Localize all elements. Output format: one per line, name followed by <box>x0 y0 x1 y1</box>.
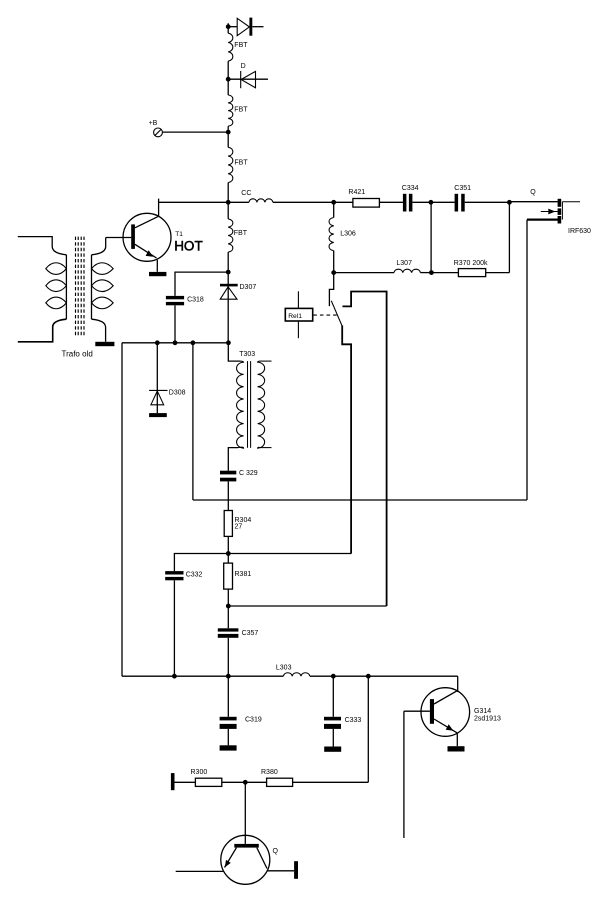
wire coil3 to CC junction <box>227 183 229 219</box>
svg-text:T303: T303 <box>239 351 255 358</box>
relay Rel1 switch blade <box>331 301 342 326</box>
node junction +B <box>226 130 231 135</box>
wire junction to R380 <box>245 781 266 783</box>
node junction x193 riser on bus <box>191 340 196 345</box>
node junction MOSFET drain wire <box>507 200 512 205</box>
wire C329 to R304 <box>227 481 229 510</box>
wire R370 to right corner <box>486 272 510 274</box>
wire coil1 to D junction <box>227 61 229 95</box>
svg-text:C319: C319 <box>245 716 262 723</box>
transformer T303 : primary winding <box>237 361 244 448</box>
wire junction to CC coil <box>228 201 249 203</box>
transistor T1 collector riser <box>158 199 160 217</box>
wire C332 to bottom bus <box>173 580 175 676</box>
resistor R380 <box>267 778 293 786</box>
wire main bus (y343) <box>122 342 228 344</box>
wire L306 junction down <box>333 202 335 217</box>
wire riser x193 from bus to y500 <box>192 343 194 500</box>
transformer T303 : core lines <box>248 361 251 448</box>
relay actuation dashed link <box>313 314 337 316</box>
svg-text:L303: L303 <box>276 664 292 671</box>
node junction C334/C351 <box>429 200 434 205</box>
wire source line across (y500) <box>193 499 527 501</box>
wire coil2 to +B junction <box>227 126 229 147</box>
transformer Trafo old : left petal 2 <box>46 280 67 292</box>
transformer T303 : secondary winding <box>258 361 265 448</box>
capacitor C351 <box>455 194 465 212</box>
wire L306 to lower junction <box>333 251 335 273</box>
transformer Trafo old : left winding top lead <box>18 237 67 255</box>
transistor Q (bottom) <box>221 835 270 884</box>
capacitor C319 <box>220 676 237 745</box>
svg-text:C 329: C 329 <box>239 470 258 477</box>
svg-text:HOT: HOT <box>174 238 203 253</box>
wire R380 to riser <box>293 781 369 783</box>
svg-text:FBT: FBT <box>234 230 248 237</box>
ground (Trafo old right winding) <box>95 342 114 346</box>
svg-text:R380: R380 <box>261 769 278 776</box>
terminal bar (R300 left) <box>171 773 175 790</box>
wire L307 to junction <box>420 272 431 274</box>
svg-text:Rel1: Rel1 <box>288 313 302 320</box>
transistor Q IRF630 (MOSFET) <box>527 199 580 224</box>
inductor L306 <box>329 218 334 251</box>
svg-text:R300: R300 <box>191 769 208 776</box>
relay Rel1 NO contact <box>343 292 387 607</box>
inductor FBT (coil 4) <box>228 219 233 252</box>
diode D308 <box>149 343 167 413</box>
svg-text:Q: Q <box>273 848 279 855</box>
terminal +B <box>149 120 163 137</box>
resistor R304 <box>224 511 232 537</box>
wire CC coil to L306 junction <box>273 201 334 203</box>
transistor G314 2sd1913 <box>421 688 470 747</box>
svg-text:FBT: FBT <box>234 106 248 113</box>
resistor R300 <box>195 778 221 786</box>
wire C351 to junction <box>465 201 510 203</box>
capacitor C318 <box>166 296 184 305</box>
node junction T303/D307 on bus <box>226 340 231 345</box>
node junction D307 / C318 wire <box>226 270 231 275</box>
node junction diode D <box>226 77 231 82</box>
wire C357 to bottom bus <box>227 638 229 676</box>
svg-text:FBT: FBT <box>234 159 248 166</box>
node junction top diode / FBT coil <box>226 24 231 29</box>
wire MOSFET source down <box>526 220 528 500</box>
svg-text:CC: CC <box>241 190 251 197</box>
ground (C333) <box>324 747 341 752</box>
wire junction to R370 <box>431 272 458 274</box>
capacitor C332 <box>165 571 183 580</box>
transformer Trafo old : left winding bottom lead <box>18 319 67 342</box>
svg-text:L307: L307 <box>396 260 412 267</box>
wire G314 base <box>404 710 430 712</box>
inductor L303 <box>283 673 309 676</box>
inductor CC <box>249 199 273 202</box>
svg-text:L306: L306 <box>340 231 356 238</box>
node junction C332 on bottom bus <box>172 674 177 679</box>
ground (G314 emitter) <box>448 746 465 751</box>
inductor FBT (coil 1) <box>228 33 233 61</box>
capacitor C333 <box>324 676 341 746</box>
svg-text:R370 200k: R370 200k <box>454 260 488 267</box>
wire C318 corner to D307 junction <box>175 272 228 296</box>
transformer Trafo old : right petal 2 <box>92 280 114 292</box>
wire terminal to R300 <box>175 781 196 783</box>
svg-text:C334: C334 <box>402 185 419 192</box>
svg-text:C318: C318 <box>187 296 204 303</box>
terminal bar (Q collector) <box>294 861 298 879</box>
relay Rel1 blade bottom path <box>342 325 351 553</box>
svg-text:Trafo old: Trafo old <box>62 350 93 359</box>
wire y553 (C332 to relay NC riser) <box>174 554 351 572</box>
wire relay coil stub above <box>297 291 299 308</box>
inductor L307 <box>394 269 420 272</box>
svg-text:Q: Q <box>530 189 536 196</box>
transformer T303 : secondary bottom stub <box>260 447 272 449</box>
node junction L306 top <box>331 200 336 205</box>
transformer Trafo old : core dashed lines <box>76 237 85 338</box>
node junction R381 bottom <box>226 604 231 609</box>
svg-text:C351: C351 <box>454 185 471 192</box>
wire bottom bus left of L303 <box>122 675 283 677</box>
resistor R421 <box>353 199 380 208</box>
svg-text:D307: D307 <box>240 284 257 291</box>
svg-text:R421: R421 <box>348 189 365 196</box>
svg-text:D308: D308 <box>169 390 186 397</box>
ground (T1 emitter) <box>149 272 166 276</box>
capacitor C357 <box>218 628 239 638</box>
wire R304 to R381 <box>227 536 229 563</box>
wire FBT coil 4 top <box>227 252 229 272</box>
transformer Trafo old : right petal 3 <box>92 297 114 309</box>
svg-text:C332: C332 <box>186 571 203 578</box>
wire R381 to C357 <box>227 589 229 628</box>
wire bottom bus right of L303 <box>310 675 458 677</box>
node junction L307/R370 <box>429 270 434 275</box>
transformer Trafo old : right winding bottom lead <box>92 319 106 342</box>
wire G314 base riser down <box>403 711 405 838</box>
node junction D308 on bus <box>155 340 160 345</box>
wire +B to main axis <box>163 131 229 133</box>
wire riser C334/C351 junction to L307/R370 junction <box>430 202 432 272</box>
node junction C357/C319 on bottom bus <box>226 674 231 679</box>
transformer Trafo old : left petal 3 <box>46 297 67 309</box>
transformer Trafo old : left petal 1 <box>46 263 67 275</box>
wire Q base riser <box>244 782 246 844</box>
node junction L306 bottom <box>331 270 336 275</box>
node junction C333 on bottom bus <box>331 674 336 679</box>
svg-text:+B: +B <box>149 120 158 127</box>
transformer Trafo old : right petal 1 <box>92 263 114 275</box>
transformer T303 : primary bottom lead <box>228 448 238 471</box>
inductor FBT (coil 2) <box>228 95 233 126</box>
svg-text:D: D <box>241 63 246 70</box>
resistor R381 <box>224 563 233 589</box>
node junction C318 on bus <box>173 340 178 345</box>
ground (D308) <box>149 413 167 417</box>
transistor T1 (HOT) <box>123 213 171 271</box>
wire C334 to junction <box>412 201 431 203</box>
wire T1 base <box>106 237 132 239</box>
ground (C319) <box>220 745 237 750</box>
svg-text:2sd1913: 2sd1913 <box>474 716 501 723</box>
svg-text:IRF630: IRF630 <box>568 228 591 235</box>
svg-text:FBT: FBT <box>234 42 248 49</box>
wire relay pole from L306 junction <box>329 273 333 307</box>
svg-text:R381: R381 <box>235 571 252 578</box>
resistor R370 200k <box>458 269 485 277</box>
diode D307 <box>220 272 238 343</box>
transformer Trafo old : right winding top lead <box>92 238 106 255</box>
svg-text:G314: G314 <box>474 708 491 715</box>
node junction R300/R380/Q base <box>243 780 248 785</box>
wire left riser (x122) <box>121 343 123 676</box>
node junction CC row <box>226 200 231 205</box>
wire relay coil stub below <box>297 321 299 338</box>
wire main axis to FBT coil 1 <box>227 27 229 34</box>
wire junction to C351 <box>431 201 455 203</box>
wire y606 (R381 bottom to relay NO riser) <box>228 605 386 607</box>
wire riser bottom bus to R380 right <box>367 676 369 782</box>
capacitor C329 <box>220 471 236 482</box>
wire junction to MOSFET drain <box>509 201 557 203</box>
diode FBT rectifier (top) <box>228 18 263 36</box>
svg-text:27: 27 <box>235 523 243 530</box>
diode D (points left) <box>228 71 268 88</box>
wire junction to R421 <box>334 201 353 203</box>
wire riser R370 to drain junction <box>508 202 510 272</box>
transformer Trafo old : right winding spine <box>91 255 93 319</box>
transformer T303 : primary top lead <box>228 343 240 361</box>
wire R421 to C334 <box>379 201 403 203</box>
wire G314 collector riser <box>457 676 459 692</box>
wire Q collector right <box>267 870 294 872</box>
node junction R380 riser on bottom bus <box>366 674 371 679</box>
inductor FBT (coil 3) <box>228 147 233 182</box>
wire stub above junction <box>227 23 229 27</box>
transformer T303 : secondary top stub <box>260 360 272 362</box>
wire T1 collector to main axis <box>159 201 229 203</box>
svg-text:T1: T1 <box>175 231 183 238</box>
node junction R304/R381 <box>226 551 231 556</box>
svg-text:C333: C333 <box>345 717 362 724</box>
wire junction to L307 <box>334 272 394 274</box>
svg-text:C357: C357 <box>242 630 259 637</box>
capacitor C334 <box>403 194 413 212</box>
transformer Trafo old : left winding spine <box>65 255 67 319</box>
wire R300 to junction <box>222 781 246 783</box>
wire Q emitter left <box>176 870 224 872</box>
wire C318 to bus <box>174 305 176 343</box>
relay Rel1 coil box <box>285 308 312 321</box>
